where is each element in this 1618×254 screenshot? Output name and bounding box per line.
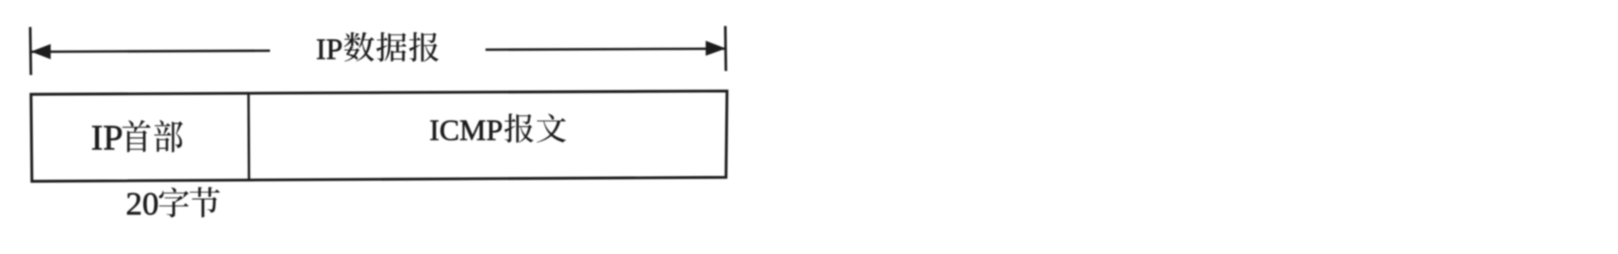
tick right end of IP datagram span — [724, 26, 727, 71]
label IP header cell: shou bu — [122, 120, 150, 152]
svg-text:IP: IP — [91, 118, 123, 158]
svg-text:ICMP: ICMP — [429, 114, 502, 147]
arrowhead left — [31, 44, 51, 59]
svg-text:IP: IP — [316, 33, 343, 66]
label ICMP message cell: bao wen — [504, 113, 533, 142]
divider between IP header cell and ICMP cell — [247, 93, 250, 180]
arrowhead right — [706, 41, 726, 56]
arrow shaft right segment — [486, 49, 726, 50]
label IP datagram: shu ju bao — [344, 32, 374, 62]
tick left end of IP datagram span — [29, 27, 32, 75]
svg-text:20: 20 — [126, 187, 159, 223]
label 20 bytes: zi jie — [159, 187, 189, 217]
rectangle IP datagram box outline — [31, 91, 727, 181]
arrow shaft left segment — [32, 51, 271, 52]
